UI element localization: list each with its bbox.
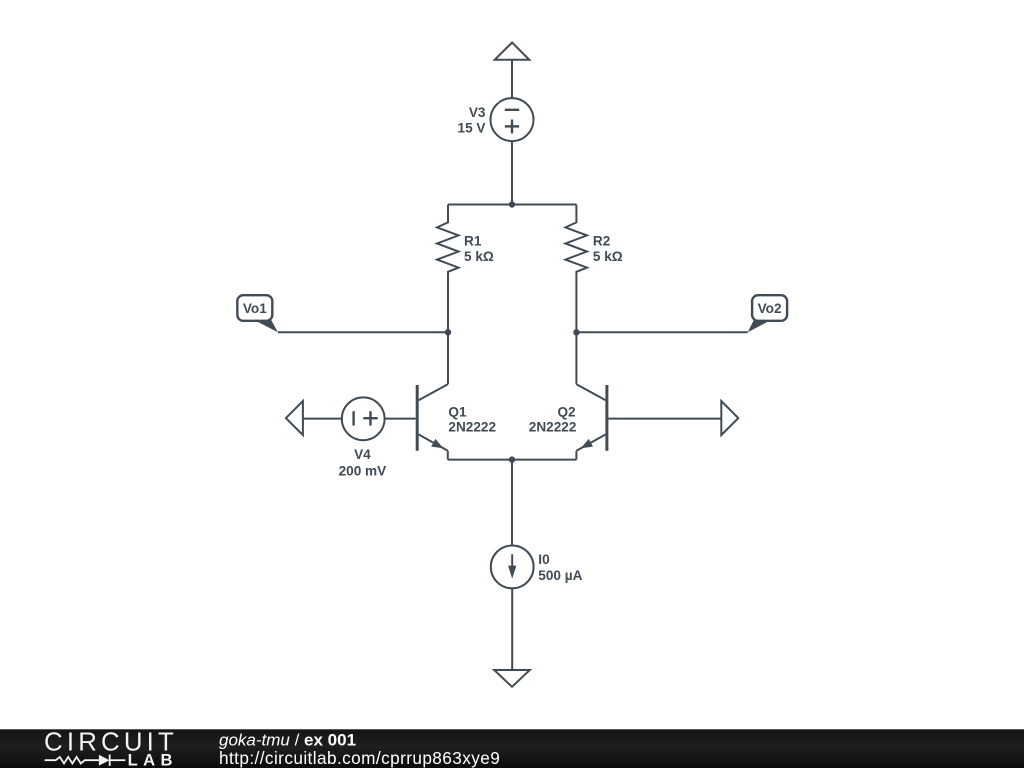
wire V3 to top rail	[511, 141, 513, 204]
wire top rail	[448, 204, 576, 206]
value 200 mV	[339, 463, 387, 478]
CircuitLab logo text CIRCUIT	[44, 729, 178, 757]
value 2N2222 Q1	[448, 420, 496, 435]
footer title goka-tmu / ex 001	[219, 731, 356, 750]
wire I0 to ground	[511, 588, 513, 670]
wire VCC to V3	[511, 60, 513, 98]
net flag Vo2	[748, 295, 787, 332]
label I0	[538, 552, 549, 567]
footer URL	[219, 748, 500, 768]
label V4	[354, 447, 371, 462]
node junction top rail	[509, 201, 515, 207]
wire Vo1 to left collector node	[278, 331, 448, 333]
node junction left collector	[445, 329, 451, 335]
wire input arrow to V4	[303, 418, 342, 420]
input port arrow left	[286, 401, 303, 435]
wire left collector node to Q1	[447, 332, 449, 384]
resistor R2	[565, 205, 587, 333]
svg-text:Vo1: Vo1	[243, 301, 267, 316]
svg-text:http://circuitlab.com/cprrup86: http://circuitlab.com/cprrup863xye9	[219, 748, 500, 768]
power flag VCC arrow	[495, 43, 530, 60]
transistor Q2	[576, 384, 607, 459]
label R2	[593, 234, 611, 249]
svg-text:Vo2: Vo2	[758, 301, 782, 316]
svg-text:goka-tmu / ex 001: goka-tmu / ex 001	[219, 731, 356, 750]
value 5 kOhm R2	[593, 249, 623, 264]
svg-text:5 kΩ: 5 kΩ	[464, 249, 494, 264]
value 15 V	[458, 120, 486, 135]
svg-text:200 mV: 200 mV	[339, 463, 387, 478]
net flag Vo1	[237, 295, 277, 332]
svg-text:5 kΩ: 5 kΩ	[593, 249, 623, 264]
label Q1	[448, 405, 467, 420]
svg-text:LAB: LAB	[128, 751, 178, 768]
CircuitLab logo resistor-diode glyph	[45, 755, 126, 766]
value 5 kOhm R1	[464, 249, 494, 264]
svg-text:V4: V4	[354, 447, 371, 462]
svg-text:15 V: 15 V	[458, 120, 486, 135]
voltage source V4	[342, 397, 385, 440]
resistor R1	[437, 205, 459, 333]
value 500 uA	[538, 568, 582, 583]
svg-text:Q2: Q2	[557, 405, 576, 420]
node junction emitters	[509, 456, 515, 462]
output port arrow right	[721, 401, 738, 435]
svg-text:2N2222: 2N2222	[448, 420, 496, 435]
wire emitter rail	[448, 459, 577, 461]
current source I0	[491, 546, 534, 589]
svg-text:I0: I0	[538, 552, 549, 567]
transistor Q1	[417, 384, 448, 459]
wire V4 to Q1 base	[385, 418, 416, 420]
svg-text:V3: V3	[469, 105, 486, 120]
CircuitLab logo text LAB	[128, 751, 178, 768]
value 2N2222 Q2	[529, 420, 577, 435]
node junction right collector	[573, 329, 579, 335]
wire Vo2 to right collector node	[576, 331, 747, 333]
label V3	[469, 105, 486, 120]
svg-text:2N2222: 2N2222	[529, 420, 577, 435]
voltage source V3	[491, 98, 534, 141]
svg-text:R2: R2	[593, 234, 611, 249]
wire right collector node to Q2	[575, 332, 577, 384]
svg-text:500 µA: 500 µA	[538, 568, 582, 583]
footer bar	[0, 729, 1024, 768]
wire emitter node to I0	[511, 460, 513, 546]
ground	[494, 670, 530, 687]
svg-text:Q1: Q1	[448, 405, 467, 420]
label R1	[464, 234, 482, 249]
label Q2	[557, 405, 576, 420]
svg-text:R1: R1	[464, 234, 482, 249]
wire Q2 base to output arrow	[608, 418, 721, 420]
